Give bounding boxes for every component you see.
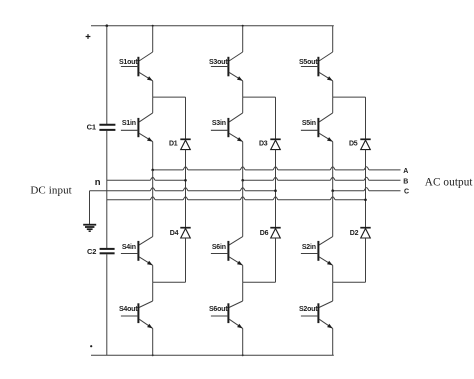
junction leg1 top [152, 25, 154, 27]
junction neutral tee at diode column [364, 199, 367, 202]
wire neutral link to D5/D2 midpoint (bottom n line) [107, 197, 367, 200]
svg-text:S3out: S3out [209, 59, 228, 66]
transistor S1out [119, 26, 153, 81]
svg-text:S5out: S5out [299, 59, 318, 66]
svg-text:D1: D1 [169, 141, 178, 148]
wire diode column lower [185, 238, 187, 282]
transistor S3in [211, 97, 243, 142]
wire leg continues to lower switch [152, 170, 154, 237]
capacitor C2 [87, 247, 115, 256]
svg-text:n: n [95, 177, 101, 188]
wire S2in emitter to junction [332, 265, 334, 282]
transistor S4in [121, 237, 153, 266]
wire bottom DC- rail [91, 354, 334, 356]
wire neutral link to D3/D6 midpoint (line C left segment) [90, 188, 276, 191]
wire left DC rail middle (C1 to C2) [106, 131, 108, 249]
wire left DC rail lower (C2 to - rail) [106, 254, 108, 355]
svg-text:C2: C2 [87, 247, 96, 256]
diode D1 [169, 139, 191, 149]
junction phase node leg S1out [151, 169, 154, 172]
svg-text:B: B [403, 178, 408, 185]
junction neutral tee at diode column [184, 179, 187, 182]
capacitor C1 [87, 123, 116, 132]
junction top-left rail corner [106, 24, 109, 27]
wire ground lead [89, 191, 91, 224]
transistor S6in [211, 237, 243, 266]
wire diode column middle [365, 150, 367, 228]
wire diode column upper [185, 97, 187, 139]
wire junction to diode column (top) [333, 96, 366, 98]
wire top DC+ rail [91, 25, 334, 27]
junction phase node leg S3out [241, 179, 244, 182]
transistor S1in [121, 97, 153, 142]
wire diode column middle [275, 150, 277, 228]
junction leg2 top [242, 25, 244, 27]
wire S4in emitter to junction [152, 265, 154, 282]
svg-text:D4: D4 [170, 230, 179, 237]
svg-text:D6: D6 [260, 230, 269, 237]
wire junction to diode column (bottom) [333, 281, 366, 283]
svg-text:S4in: S4in [122, 244, 136, 251]
svg-text:S3in: S3in [212, 120, 226, 127]
svg-text:S2out: S2out [299, 306, 318, 313]
wire S3out emitter to junction [242, 81, 244, 97]
wire phase line B (right segment) [243, 177, 401, 180]
diode D5 [349, 139, 371, 149]
wire S1out emitter to junction [152, 81, 154, 97]
wire S4out emitter to DC- rail [152, 328, 154, 355]
wire neutral link to D1/D4 midpoint (line B left segment) [107, 177, 186, 180]
wire leg continues to lower switch [242, 180, 244, 236]
svg-text:S6in: S6in [212, 244, 226, 251]
svg-text:C1: C1 [87, 123, 96, 132]
wire diode column upper [365, 97, 367, 139]
wire left DC rail upper (to C1) [106, 26, 108, 125]
transistor S6out [209, 282, 243, 328]
wire phase line A [153, 167, 401, 170]
svg-text:A: A [403, 168, 408, 175]
transistor S4out [119, 282, 153, 328]
wire S5in emitter to phase junction [332, 142, 334, 191]
diode D4 [170, 228, 191, 238]
wire junction to diode column (top) [243, 96, 276, 98]
wire S3in emitter to phase junction [242, 142, 244, 181]
wire S1in emitter to phase junction [152, 142, 154, 170]
svg-text:D2: D2 [350, 230, 359, 237]
ground [83, 225, 96, 232]
svg-text:D5: D5 [349, 141, 358, 148]
svg-text:S2in: S2in [302, 244, 316, 251]
node - (negative rail label) [90, 345, 92, 347]
svg-text:C: C [404, 189, 409, 196]
junction phase node leg S5out [331, 189, 334, 192]
wire diode column lower [275, 238, 277, 282]
svg-text:S5in: S5in [302, 120, 316, 127]
svg-text:DC input: DC input [30, 185, 71, 197]
svg-text:D3: D3 [259, 141, 268, 148]
wire diode column upper [275, 97, 277, 139]
wire junction to diode column (bottom) [243, 281, 276, 283]
diode D2 [350, 228, 371, 238]
svg-text:AC output: AC output [425, 176, 474, 188]
transistor S2in [301, 237, 333, 266]
wire S6out emitter to DC- rail [242, 328, 244, 355]
junction neutral tee at diode column [274, 189, 277, 192]
svg-text:S4out: S4out [119, 306, 138, 313]
wire S5out emitter to junction [332, 81, 334, 97]
junction leg1 bottom [152, 354, 154, 356]
svg-text:S1in: S1in [122, 120, 136, 127]
wire leg continues to lower switch [332, 191, 334, 237]
wire S6in emitter to junction [242, 265, 244, 282]
svg-text:S6out: S6out [209, 306, 228, 313]
svg-text:S1out: S1out [119, 59, 138, 66]
wire junction to diode column (top) [153, 96, 186, 98]
transistor S5out [299, 26, 333, 81]
transistor S5in [301, 97, 333, 142]
wire phase line C (right segment) [333, 188, 401, 191]
wire diode column middle [185, 150, 187, 228]
node + (positive rail label) [86, 34, 91, 39]
wire diode column lower [365, 238, 367, 282]
wire S2out emitter to DC- rail [332, 328, 334, 355]
diode D6 [260, 228, 281, 238]
transistor S3out [209, 26, 243, 81]
junction leg2 bottom [242, 354, 244, 356]
wire junction to diode column (bottom) [153, 281, 186, 283]
transistor S2out [299, 282, 333, 328]
diode D3 [259, 139, 281, 149]
